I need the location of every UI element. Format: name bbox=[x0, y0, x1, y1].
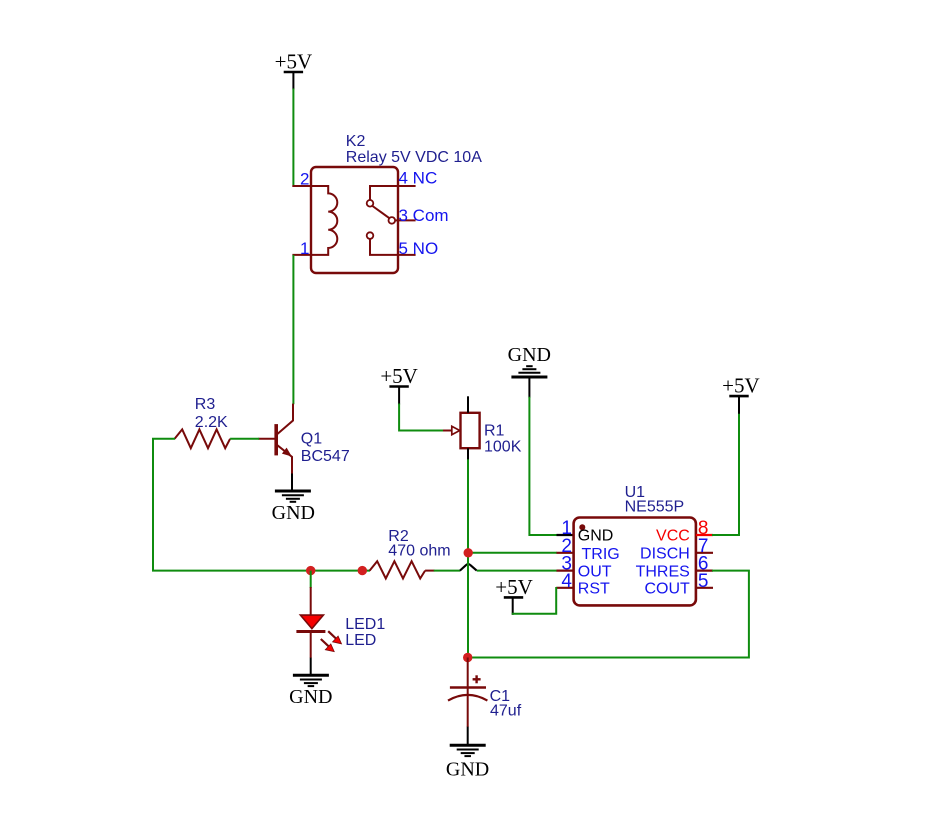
resistor R2 label bbox=[388, 528, 450, 559]
svg-text:Relay 5V VDC 10A: Relay 5V VDC 10A bbox=[346, 149, 482, 166]
transistor Q1 emitter lead bbox=[277, 445, 292, 474]
svg-text:4: 4 bbox=[561, 571, 572, 592]
svg-text:GND: GND bbox=[289, 686, 332, 708]
wire R1 down the timing net bbox=[467, 459, 469, 657]
svg-text:GND: GND bbox=[508, 344, 551, 366]
potentiometer R1 label bbox=[484, 423, 522, 456]
junction node at LED branch bbox=[306, 566, 315, 575]
555 pin 3 stub bbox=[557, 569, 574, 571]
wire +5V to 555 pin 4 bbox=[512, 587, 557, 614]
wire LED to ground (black stub) bbox=[310, 658, 312, 676]
LED1 light arrows bbox=[321, 631, 342, 651]
svg-text:BC547: BC547 bbox=[301, 448, 350, 465]
transistor Q1 collector lead bbox=[277, 404, 293, 435]
svg-text:THRES: THRES bbox=[636, 563, 690, 580]
relay K2 pin 1 lead bbox=[292, 254, 311, 256]
capacitor C1 top plate bbox=[450, 686, 486, 688]
555 pin 2 stub bbox=[557, 552, 574, 554]
svg-text:COUT: COUT bbox=[644, 581, 690, 598]
relay K2 pin 3 Com lead bbox=[395, 219, 416, 221]
junction node C1 top bbox=[463, 653, 472, 662]
555 pin 8 stub (red) bbox=[696, 534, 713, 536]
svg-text:LED1: LED1 bbox=[345, 616, 385, 633]
svg-text:R3: R3 bbox=[195, 396, 216, 413]
svg-text:100K: 100K bbox=[484, 439, 522, 456]
capacitor C1 top lead bbox=[467, 658, 469, 688]
wire Q1 emitter to ground (black stub) bbox=[291, 474, 293, 492]
resistor R3 label bbox=[195, 396, 228, 431]
svg-text:GND: GND bbox=[446, 758, 489, 780]
LED1 cathode bar bbox=[296, 630, 325, 633]
capacitor C1 polarity + bbox=[473, 675, 481, 683]
svg-text:GND: GND bbox=[578, 528, 614, 545]
potentiometer R1 wiper arrow bbox=[443, 426, 460, 434]
ground symbol below LED bbox=[293, 675, 329, 686]
wire +5V stub (black) bbox=[292, 72, 294, 90]
svg-text:5: 5 bbox=[698, 571, 709, 592]
transistor Q1 emitter arrow bbox=[282, 448, 292, 457]
svg-text:470 ohm: 470 ohm bbox=[388, 542, 450, 559]
potentiometer R1 bottom stub (black) bbox=[467, 448, 469, 460]
svg-text:R1: R1 bbox=[484, 423, 505, 440]
power symbol +5V (R1 wiper) bbox=[380, 364, 418, 388]
svg-text:4 NC: 4 NC bbox=[399, 169, 438, 188]
wire relay pin1 to Q1 collector bbox=[292, 255, 294, 404]
svg-text:LED: LED bbox=[345, 632, 376, 649]
555 pin 4 stub bbox=[556, 587, 573, 589]
wire +5V to 555 pin 8 bbox=[712, 414, 739, 535]
svg-text:VCC: VCC bbox=[656, 528, 690, 545]
svg-text:Q1: Q1 bbox=[301, 431, 322, 448]
wire +5V to relay pin 2 bbox=[292, 89, 294, 188]
junction node at R2 input bbox=[358, 566, 367, 575]
555 pin 1 stub (black) bbox=[557, 534, 574, 536]
wire R2 to hop bbox=[434, 570, 461, 572]
transistor Q1 label bbox=[301, 431, 350, 465]
wire C1 to ground (black stub) bbox=[467, 727, 469, 746]
IC U1 body bbox=[574, 518, 696, 606]
wire ground stub (black) bbox=[528, 377, 530, 398]
capacitor C1 bottom lead bbox=[467, 688, 469, 728]
svg-text:+5V: +5V bbox=[722, 374, 760, 398]
LED1 anode lead bbox=[310, 587, 312, 615]
svg-text:RST: RST bbox=[578, 581, 610, 598]
power symbol +5V (relay coil supply) bbox=[275, 50, 313, 74]
relay K2 coil bbox=[311, 186, 337, 255]
LED1 triangle bbox=[300, 615, 323, 629]
relay K2 pin 4 NC lead and contact arm bbox=[370, 186, 416, 200]
wire R3 to Q1 base bbox=[230, 438, 259, 440]
svg-text:+5V: +5V bbox=[380, 364, 418, 388]
wire LED branch from junction bbox=[310, 571, 312, 588]
svg-text:+5V: +5V bbox=[275, 50, 313, 74]
relay K2 label bbox=[346, 133, 482, 166]
resistor R2 right lead bbox=[425, 570, 434, 572]
capacitor C1 bottom plate (curved) bbox=[448, 695, 487, 701]
svg-text:5 NO: 5 NO bbox=[399, 239, 439, 258]
wire +5V stub at RST (black) bbox=[512, 597, 514, 614]
wire 555 pin 6 loop to C1 bbox=[467, 571, 749, 658]
wire TRIG junction to 555 pin 2 bbox=[468, 552, 557, 554]
wire +5V to R1 wiper bbox=[399, 404, 444, 431]
wire +5V stub at R1 (black) bbox=[398, 387, 400, 405]
wire hop to 555 OUT pin bbox=[477, 570, 557, 572]
potentiometer R1 body bbox=[461, 413, 480, 448]
svg-text:47uf: 47uf bbox=[490, 703, 522, 720]
wire +5V stub at VCC (black) bbox=[738, 396, 740, 415]
ground symbol below Q1 bbox=[275, 491, 311, 502]
power symbol +5V (555 RST) bbox=[495, 575, 533, 599]
relay K2 pin 5 NO lead bbox=[370, 239, 416, 255]
wire R3 left to feedback loop bbox=[153, 439, 370, 571]
svg-text:NE555P: NE555P bbox=[625, 499, 685, 516]
IC U1 label bbox=[625, 484, 685, 516]
svg-text:GND: GND bbox=[272, 502, 315, 524]
svg-text:3 Com: 3 Com bbox=[399, 206, 449, 225]
relay K2 switch blade bbox=[373, 206, 390, 218]
svg-text:+5V: +5V bbox=[495, 575, 533, 599]
relay K2 pin 2 lead bbox=[292, 185, 311, 187]
relay K2 common contact bbox=[389, 217, 396, 224]
relay K2 fixed contact NO bbox=[367, 232, 374, 239]
potentiometer R1 top stub (black) bbox=[467, 396, 469, 413]
power symbol +5V (555 VCC) bbox=[722, 374, 760, 398]
resistor R2 body bbox=[370, 561, 426, 578]
555 pin 7 stub bbox=[696, 552, 713, 554]
wire ground to 555 pin 1 bbox=[529, 397, 557, 535]
resistor R3 body bbox=[175, 429, 231, 448]
relay K2 fixed contact NC bbox=[367, 200, 374, 207]
svg-text:2: 2 bbox=[300, 170, 309, 189]
ground symbol bars (inverted) bbox=[511, 366, 547, 377]
svg-text:TRIG: TRIG bbox=[582, 546, 620, 563]
capacitor C1 label bbox=[490, 688, 522, 720]
555 pin 6 stub bbox=[696, 569, 713, 571]
svg-text:K2: K2 bbox=[346, 133, 366, 150]
transistor Q1 base bar bbox=[274, 424, 278, 455]
relay K2 body bbox=[311, 167, 398, 273]
IC U1 pin-1 dot bbox=[579, 524, 585, 530]
junction node TRIG tap bbox=[464, 548, 473, 557]
transistor Q1 base lead bbox=[258, 438, 275, 440]
LED1 cathode lead bbox=[310, 632, 312, 659]
svg-text:DISCH: DISCH bbox=[640, 546, 690, 563]
svg-text:OUT: OUT bbox=[578, 563, 612, 580]
svg-text:1: 1 bbox=[300, 239, 309, 258]
wire hop over vertical net bbox=[460, 564, 477, 571]
ground symbol below C1 bbox=[450, 745, 486, 756]
LED1 label bbox=[345, 616, 385, 649]
555 pin 5 stub bbox=[696, 587, 713, 589]
